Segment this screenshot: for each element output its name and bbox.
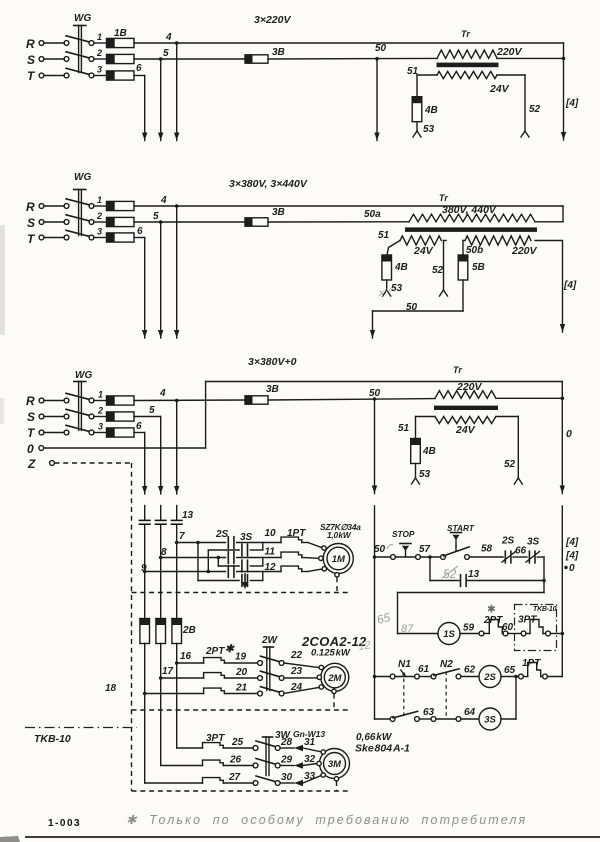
svg-text:2S: 2S: [483, 672, 496, 683]
svg-text:3S: 3S: [527, 537, 540, 548]
switch WG linkage: [74, 190, 86, 236]
overload 3PT row 26: [161, 755, 253, 766]
switch WG linkage: [74, 26, 86, 73]
svg-text:2W: 2W: [261, 635, 279, 646]
node 64: [461, 707, 479, 719]
contact 3PT NC: [518, 615, 562, 636]
fuse 2B line 6: [140, 619, 150, 644]
feed line 5: [160, 506, 162, 619]
scan smudge left edge: [0, 225, 5, 335]
svg-text:28: 28: [280, 737, 293, 748]
overload 1PT phase 10: [263, 537, 322, 548]
contact 3S lower: [242, 575, 248, 587]
feed line 4: [176, 506, 178, 619]
svg-text:S: S: [27, 53, 35, 67]
node 57: [419, 544, 441, 559]
motor 3M type label: [355, 732, 410, 755]
fuse 4B: [382, 255, 408, 280]
svg-text:TKB-10: TKB-10: [34, 733, 71, 745]
svg-text:6: 6: [137, 226, 143, 237]
wire branch 7 to 3S row: [198, 543, 239, 581]
svg-text:3B: 3B: [272, 47, 285, 58]
rail right 0: [561, 506, 565, 677]
svg-text:87: 87: [401, 623, 414, 635]
svg-text:17: 17: [162, 666, 174, 677]
svg-text:3×380V+0: 3×380V+0: [248, 356, 297, 368]
motor 2M earth wire: [132, 694, 349, 711]
fuse row 2: [96, 48, 134, 64]
svg-text:61: 61: [418, 664, 430, 675]
feed line 5 lower: [160, 644, 162, 766]
coil 2S: [479, 666, 501, 688]
fuse row 3: [97, 227, 134, 243]
node 8: [159, 547, 167, 559]
svg-text:TKB-10: TKB-10: [533, 606, 557, 613]
wire branch 8 to 3S row: [218, 558, 239, 567]
svg-text:S: S: [27, 216, 35, 230]
node 60: [502, 622, 521, 634]
wire 50 drop arrow: [370, 311, 375, 338]
node 7: [175, 531, 185, 544]
svg-text:2S: 2S: [215, 529, 229, 540]
wire 4: [134, 388, 245, 402]
wire 4 secondary right drop arrow: [535, 241, 577, 333]
transformer Tr secondary 24V: [435, 417, 496, 437]
svg-text:R: R: [26, 394, 35, 408]
svg-text:33: 33: [304, 771, 316, 782]
svg-text:R: R: [26, 200, 35, 214]
svg-text:2PT: 2PT: [205, 646, 225, 657]
svg-text:2PT: 2PT: [483, 615, 503, 626]
feed line 6 lower: [144, 644, 146, 784]
svg-text:25: 25: [231, 737, 244, 748]
overload 3PT row 25: [177, 737, 253, 748]
node 9: [141, 563, 147, 574]
svg-text:1,0 kW: 1,0 kW: [327, 530, 352, 540]
svg-text:24: 24: [290, 682, 303, 693]
wire 5: [134, 405, 161, 417]
svg-text:3×380V, 3×440V: 3×380V, 3×440V: [229, 178, 308, 190]
svg-text:WG: WG: [74, 172, 91, 183]
overload 2PT row 18: [145, 683, 258, 694]
node 17: [159, 666, 174, 680]
wire row 3S from rail: [375, 718, 391, 720]
svg-text:5B: 5B: [472, 262, 485, 273]
node 63: [419, 707, 434, 719]
svg-text:24V: 24V: [489, 83, 510, 95]
svg-text:52: 52: [529, 104, 541, 115]
svg-text:29: 29: [280, 755, 293, 766]
wire row 8 out: [237, 557, 263, 559]
wire 4 right drop arrow: [561, 43, 579, 140]
svg-text:20: 20: [235, 667, 248, 678]
coil 1S: [438, 623, 460, 645]
svg-text:3S: 3S: [484, 715, 496, 726]
wire to coil 1S: [398, 593, 545, 634]
svg-text:Z: Z: [27, 457, 36, 471]
svg-text:N1: N1: [398, 659, 411, 670]
transformer Tr secondary 220V: [465, 236, 538, 257]
node 16: [175, 651, 192, 665]
svg-text:19: 19: [235, 652, 247, 663]
svg-text:WG: WG: [74, 13, 91, 24]
node 62: [461, 665, 479, 677]
svg-text:3M: 3M: [328, 759, 342, 770]
wire 50a: [268, 209, 409, 222]
svg-text:✱ Только по особому требованию: ✱ Только по особому требованию потребите…: [126, 813, 527, 827]
plug 28-31: [280, 737, 321, 752]
svg-text:52: 52: [432, 265, 444, 276]
svg-text:24V: 24V: [413, 245, 434, 257]
pencil mark tick: [387, 545, 393, 550]
wire primary right to line 4: [497, 57, 565, 61]
node 18: [105, 683, 147, 695]
motor 1M earth wire: [132, 577, 351, 592]
svg-text:Ske 804 A-1: Ske 804 A-1: [355, 743, 410, 755]
wire row 7 out: [237, 542, 263, 544]
contact 1PT NC: [519, 658, 563, 679]
switch WG pole T: [39, 230, 106, 240]
svg-text:16: 16: [180, 651, 192, 662]
transformer Tr primary 220V: [435, 381, 496, 398]
svg-text:WG: WG: [75, 370, 92, 381]
boundary TKB-10: [25, 728, 137, 746]
svg-text:12: 12: [358, 639, 372, 653]
fuse 1B: [97, 28, 134, 48]
fuse row 3: [97, 65, 134, 81]
fuse row 2: [96, 211, 134, 227]
node 53: [383, 280, 403, 296]
svg-text:23: 23: [290, 666, 303, 677]
fuse 2B line 4: [172, 619, 182, 644]
svg-text:1: 1: [97, 195, 102, 205]
svg-text:3: 3: [97, 65, 102, 75]
svg-text:60: 60: [502, 622, 514, 633]
svg-text:0.125 kW: 0.125 kW: [311, 648, 351, 659]
svg-text:7: 7: [179, 531, 185, 542]
svg-text:13: 13: [182, 510, 194, 521]
svg-text:4: 4: [159, 388, 166, 399]
wire 5 drop arrow: [158, 417, 163, 495]
wire 3S return: [501, 677, 516, 720]
plug 29-32: [280, 754, 317, 769]
contact 3S NC: [526, 537, 540, 563]
wire 4 drop arrow: [174, 43, 179, 141]
svg-text:21: 21: [235, 683, 248, 694]
svg-text:3B: 3B: [266, 384, 279, 395]
wire Z dashed: [54, 462, 131, 464]
motor 2M: [317, 663, 349, 693]
svg-text:START: START: [447, 523, 475, 533]
svg-text:Tr: Tr: [461, 29, 470, 39]
contact 3S upper: [242, 544, 248, 556]
node 52: [496, 417, 522, 485]
svg-text:4B: 4B: [424, 105, 438, 116]
svg-text:4B: 4B: [394, 262, 408, 273]
wire 3S mid out: [250, 565, 262, 567]
contact 3S mid: [242, 560, 248, 572]
switch WG pole R: [39, 36, 106, 46]
switch WG pole R: [39, 393, 106, 403]
fuse 3B: [245, 47, 285, 63]
wire 0 drop arrow: [560, 382, 572, 494]
node 51: [378, 230, 400, 255]
link N2 dashed: [445, 672, 447, 717]
transformer Tr primary 220V: [437, 46, 523, 58]
wire 50 drop arrow: [374, 59, 379, 141]
overload 2PT row 16: [177, 652, 258, 664]
switch 2W pole 21-24: [258, 687, 284, 696]
node 50b: [463, 241, 483, 257]
svg-text:3×220V: 3×220V: [254, 14, 291, 26]
contact 2PT NC: [479, 615, 508, 636]
label 0: [564, 563, 575, 574]
svg-text:59: 59: [463, 623, 475, 634]
transformer Tr core: [434, 406, 498, 410]
svg-text:2S: 2S: [501, 536, 515, 547]
wire 4: [134, 195, 563, 208]
transformer Tr core: [405, 227, 537, 232]
svg-text:0: 0: [27, 442, 34, 456]
wire 6: [134, 63, 145, 76]
wire 6: [134, 421, 145, 433]
fuse 4B: [412, 97, 438, 122]
button START: [441, 523, 475, 559]
svg-text:13: 13: [468, 569, 480, 580]
svg-text:2B: 2B: [182, 625, 196, 636]
coil 3S: [479, 708, 501, 730]
motor 3M: [317, 749, 350, 782]
svg-text:0: 0: [566, 428, 572, 440]
wire 3S lower out: [250, 580, 262, 582]
svg-text:0: 0: [569, 563, 575, 574]
wire row 8: [161, 556, 226, 560]
wire 5 drop arrow: [158, 222, 163, 338]
wire 50 return: [373, 280, 464, 313]
wire 5 drop arrow: [158, 59, 163, 141]
switch 3W pole 26-29: [253, 759, 280, 768]
svg-text:1: 1: [98, 390, 103, 400]
button STOP: [375, 529, 421, 559]
svg-text:51: 51: [407, 66, 419, 77]
switch WG pole S: [39, 52, 106, 62]
wire branch 9 to 3S row: [208, 550, 239, 572]
wire 0: [44, 382, 563, 449]
svg-text:31: 31: [304, 737, 316, 748]
wire row 7: [177, 541, 226, 545]
svg-text:5: 5: [163, 48, 169, 59]
feed line 6: [144, 506, 146, 619]
wire 5: [134, 211, 245, 224]
wire row 9: [145, 570, 226, 574]
rail left 50: [373, 506, 377, 719]
wire row 2S from rail: [375, 676, 391, 678]
wire 3S upper out: [250, 549, 262, 551]
motor 1M type label: [320, 522, 361, 540]
svg-text:4B: 4B: [422, 446, 436, 457]
svg-text:✱: ✱: [487, 604, 496, 616]
limit switch N1 NO lower: [390, 711, 419, 721]
svg-text:30: 30: [281, 772, 293, 783]
fuse 2B line 5: [156, 619, 166, 644]
node 66: [513, 546, 527, 558]
scan smudge corner: [0, 836, 20, 842]
svg-text:Tr: Tr: [453, 365, 462, 375]
node 58: [469, 544, 503, 558]
transformer Tr secondary 24V: [400, 236, 441, 257]
svg-text:11: 11: [265, 547, 276, 558]
terminal circle 0: [39, 446, 44, 451]
svg-text:65: 65: [504, 665, 516, 676]
svg-text:50a: 50a: [364, 209, 381, 220]
contact 2S phase 7: [228, 537, 234, 549]
switch 3W pole 27-30: [253, 776, 280, 785]
svg-text:1: 1: [97, 32, 102, 42]
wire 5: [134, 48, 245, 61]
fuse row 1: [98, 390, 134, 406]
switch 3W linkage: [263, 737, 273, 776]
switch WG pole S: [39, 215, 106, 225]
wire primary right to 0: [496, 397, 564, 401]
svg-text:3: 3: [98, 422, 103, 432]
contactor 1S main contact line 4: [171, 520, 182, 524]
svg-text:4: 4: [160, 195, 167, 206]
transformer Tr secondary 24V: [437, 71, 510, 95]
svg-text:51: 51: [378, 230, 390, 241]
fuse row 3: [98, 422, 134, 438]
earth line Z vertical: [131, 463, 133, 791]
junction 12: [263, 562, 276, 581]
limit switch N2 NO: [431, 659, 461, 679]
wire 6 drop arrow: [142, 238, 147, 339]
box TKB-10: [515, 605, 557, 651]
motor 2M type label: [301, 634, 367, 659]
node 53: [412, 464, 431, 485]
svg-text:3S: 3S: [240, 532, 253, 543]
link N1 dashed: [403, 679, 405, 717]
svg-text:6: 6: [136, 63, 142, 74]
svg-text:220V: 220V: [456, 381, 483, 393]
node 61: [418, 664, 431, 677]
svg-text:[4]: [4]: [565, 98, 579, 109]
svg-text:53: 53: [419, 469, 431, 480]
svg-text:1-003: 1-003: [48, 818, 81, 829]
svg-text:64: 64: [464, 707, 476, 718]
node 50: [375, 43, 387, 61]
switch WG pole T: [39, 425, 106, 435]
wire 22: [284, 650, 319, 668]
svg-text:2: 2: [96, 48, 102, 58]
svg-text:22: 22: [290, 650, 303, 661]
bottom border: [25, 836, 600, 838]
switch WG linkage: [74, 382, 86, 431]
junction 11: [263, 547, 276, 567]
svg-text:2: 2: [97, 406, 103, 416]
switch 2W pole 19-22: [258, 656, 284, 665]
node 52 mid tap: [432, 241, 448, 297]
wire 23: [284, 666, 317, 678]
wire 24: [284, 682, 319, 694]
svg-text:N2: N2: [440, 659, 453, 670]
node 51: [407, 66, 437, 97]
junction 10: [263, 528, 276, 550]
svg-text:50b: 50b: [466, 245, 483, 256]
switch 2W pole 20-23: [258, 671, 284, 680]
node 52: [497, 75, 541, 137]
overload 2PT row 17: [161, 667, 258, 678]
switch WG pole T: [39, 68, 106, 78]
svg-text:50: 50: [375, 43, 387, 54]
svg-text:220V: 220V: [511, 245, 538, 257]
svg-text:3B: 3B: [272, 207, 285, 218]
svg-text:R: R: [26, 37, 35, 51]
switch WG pole R: [39, 199, 106, 209]
svg-text:Tr: Tr: [439, 193, 448, 203]
svg-text:6: 6: [136, 421, 142, 432]
fuse 3B: [245, 384, 279, 404]
contactor 1S main contact line 5: [155, 520, 166, 524]
svg-text:1S: 1S: [443, 629, 455, 640]
svg-text:S: S: [27, 410, 35, 424]
svg-text:10: 10: [265, 528, 277, 539]
wire 6: [134, 226, 145, 238]
svg-text:62: 62: [464, 665, 476, 676]
svg-text:[4]: [4]: [565, 537, 579, 548]
svg-text:2: 2: [96, 211, 102, 221]
svg-text:STOP: STOP: [392, 529, 415, 539]
fuse row 1: [97, 195, 134, 211]
switch 3W pole 25-28: [253, 741, 280, 750]
svg-text:5: 5: [153, 211, 159, 222]
switch WG pole S: [39, 409, 106, 419]
wire 5 to transformer: [268, 57, 437, 60]
wire top right corner: [562, 206, 564, 222]
wire 4: [134, 32, 564, 45]
wire to corner: [537, 557, 546, 593]
svg-text:32: 32: [304, 754, 316, 765]
node 50: [268, 388, 435, 401]
svg-text:5: 5: [149, 405, 155, 416]
contact 2S phase 8: [228, 552, 234, 564]
limit switch N1 NC: [390, 659, 419, 679]
overload 1PT phase 12: [263, 566, 322, 571]
node 59: [460, 623, 479, 634]
svg-text:50: 50: [374, 544, 386, 555]
transformer Tr core: [437, 63, 499, 68]
svg-text:x°°: x°°: [378, 288, 392, 299]
plug 30-33: [280, 771, 321, 786]
svg-text:24V: 24V: [455, 424, 476, 436]
contactor 1S main contact line 6: [139, 520, 150, 524]
svg-text:1B: 1B: [114, 28, 127, 39]
svg-text:[4]: [4]: [565, 551, 579, 562]
node 51: [398, 417, 435, 439]
svg-text:57: 57: [419, 544, 431, 555]
overload 1PT phase 11: [263, 552, 319, 558]
scan smudge mid left: [0, 398, 4, 424]
contact 13 hold: [461, 569, 545, 586]
svg-text:53: 53: [423, 124, 435, 135]
wire hold row: [430, 557, 459, 581]
wire 6 drop arrow: [142, 433, 147, 495]
svg-text:18: 18: [105, 683, 117, 694]
svg-text:52: 52: [504, 459, 516, 470]
svg-text:1M: 1M: [332, 554, 346, 565]
feed line 4 lower: [176, 644, 178, 749]
fuse 5B: [458, 255, 485, 280]
wire 6 drop arrow: [142, 76, 147, 141]
switch 2W linkage: [264, 647, 274, 691]
